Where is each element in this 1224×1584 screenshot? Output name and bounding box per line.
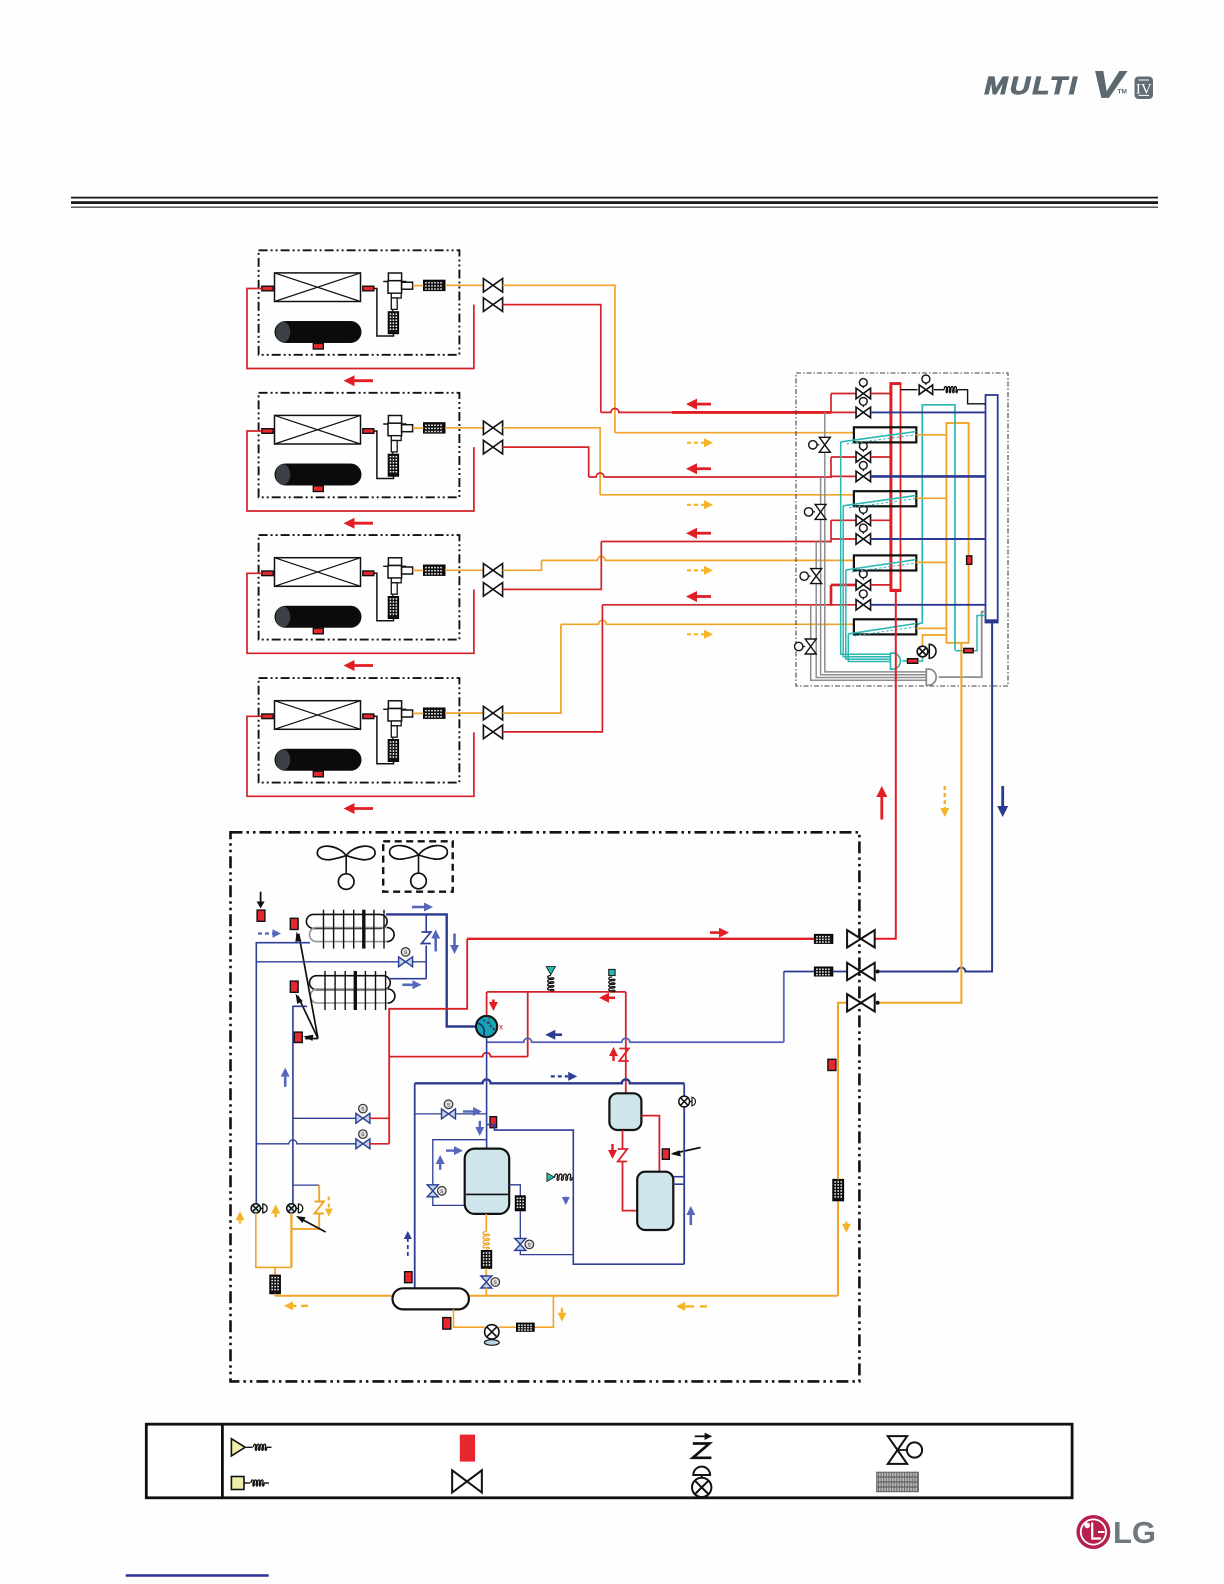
sensor under cylinder IDU3 [313, 628, 323, 634]
teal line subcooler 3 to gas-liquid separator [846, 570, 891, 659]
red gas pipe IDU1 to HR [503, 305, 601, 413]
sensor on liquid riser [828, 1059, 836, 1070]
outdoor EEV 2 [287, 1204, 296, 1213]
solenoid valve defrost [399, 957, 406, 967]
red discharge piping [389, 939, 467, 1144]
fan coil (black cylinder) IDU2 [275, 464, 361, 485]
HR EEV line branch 3 (gray) [816, 542, 926, 678]
oil separator [609, 1093, 641, 1130]
suction main line [415, 1079, 685, 1083]
red flow arrow on gas pipe 1 [697, 403, 711, 406]
ODU box [231, 832, 860, 1381]
orange dashed down arrow EEV bypass [328, 1197, 330, 1209]
red gas pipe IDU4 to HR [503, 605, 603, 732]
shutoff valve IDU1 gas (red) [483, 298, 493, 312]
wire HX right to EEV strainer IDU2 [374, 431, 394, 479]
EEV (electronic expansion valve) IDU2 [388, 416, 401, 424]
low pressure gas line to 4-way [487, 1038, 784, 1042]
shutoff valve IDU3 liquid (orange) [445, 569, 483, 571]
svg-text:x: x [499, 1023, 503, 1032]
orange liquid riser to service valve [837, 1201, 839, 1296]
red arrow to service valve [710, 931, 719, 934]
indoor unit 1 box [259, 250, 460, 354]
orange up arrows at EEVs [239, 1220, 242, 1223]
receiver bottom oil loop [454, 1309, 485, 1327]
hot gas bypass capillary coil [944, 387, 957, 393]
outdoor EEV 1 [251, 1204, 260, 1213]
blue down arrow (low pressure gas) [1001, 786, 1004, 806]
red flow arrow on gas pipe 4 [697, 595, 711, 598]
svg-text:s: s [447, 1102, 450, 1108]
orange dashed flow arrow on liquid pipe 3 [687, 569, 704, 571]
oil separator bottom with Z capillary [622, 1130, 624, 1149]
blue up arrow defrost [434, 939, 437, 952]
legend: valve [452, 1470, 467, 1492]
legend: temp sensor [460, 1435, 475, 1462]
blue down arrow hot gas riser [453, 934, 456, 946]
annotation arrow sensor [673, 1148, 701, 1154]
indoor unit 4 box [259, 678, 460, 783]
EEV (electronic expansion valve) IDU4 [388, 701, 401, 709]
MULTI V logo [982, 64, 1129, 106]
shutoff valve IDU4 gas (red) [483, 725, 493, 739]
pressure sensor 2 [609, 977, 615, 992]
navy line branch 4 to blue header [871, 604, 986, 606]
navy pipe coil1 outlet [386, 914, 476, 1026]
svg-text:LG: LG [1113, 1515, 1156, 1550]
indoor unit 2 box [259, 393, 460, 498]
outdoor fan 1 [317, 846, 346, 860]
defrost line with Z restrictor [425, 914, 427, 931]
sensor on red drop [662, 1149, 669, 1159]
orange below EEVs [256, 1213, 292, 1267]
orange dashed flow arrow on liquid pipe 4 [687, 633, 704, 635]
pipe temp sensor IDU1 left [262, 286, 273, 291]
svg-text:s: s [361, 1107, 364, 1113]
receiver (capsule) [393, 1288, 469, 1309]
HP gas service valve [847, 930, 861, 947]
EEV on suction return [679, 1096, 690, 1107]
HR main EEV (circle-X) [917, 646, 928, 657]
indoor unit 3 box [259, 535, 460, 640]
outdoor coil 1 [306, 914, 387, 928]
HR branch 1 riser [830, 394, 832, 414]
orange left arrows liquid main [293, 1305, 296, 1307]
subcooler HX 3 [854, 555, 916, 570]
shutoff valve IDU1 liquid (orange) [445, 284, 483, 286]
4-way valve [476, 1016, 497, 1037]
annotation arrow EEV [299, 1218, 326, 1233]
coil 2 sensor [290, 981, 298, 992]
navy line right of vessels [683, 1083, 685, 1096]
red up arrow + Z discharge [612, 1056, 614, 1061]
coil sensor annotation arrows [299, 934, 318, 1039]
blue low-pressure header [986, 395, 998, 623]
red gas pipe IDU3 to HR [503, 542, 602, 590]
HR expansion valve branch 3 [811, 569, 822, 577]
orange wire EEV to strainer IDU3 [413, 569, 424, 571]
sensor left suction [405, 1272, 412, 1283]
teal line subcooler 2 to gas-liquid separator [843, 506, 890, 657]
subcooler 1 outlet to liquid header [916, 434, 946, 436]
red gas pipe loop under IDU4 [247, 716, 474, 796]
orange liquid pipe IDU2 to HR [503, 428, 600, 495]
orange wire EEV to strainer IDU4 [413, 712, 424, 714]
EEV (electronic expansion valve) IDU3 [388, 558, 401, 566]
subcooler 2 teal circuit diagonal [843, 495, 916, 505]
blue down arrow accumulator inlet [479, 1121, 481, 1127]
subcooler 4 teal circuit diagonal [848, 624, 916, 634]
subcooler 3 outlet to liquid header [916, 561, 946, 563]
sensor on orange header [967, 556, 972, 564]
HR solenoid valve branch 2 low-pressure [856, 471, 863, 482]
blue up arrow vessel return [689, 1215, 692, 1225]
bottom left blue line [126, 1574, 269, 1576]
sensor under cylinder IDU1 [313, 343, 323, 349]
LG logo mark [1076, 1515, 1110, 1549]
HR solenoid valve branch 1 high-pressure [856, 388, 863, 399]
strainer below EEV IDU3 [388, 597, 398, 619]
svg-text:s: s [404, 950, 407, 956]
stem to red header branch 4 [871, 584, 891, 586]
strainer below EEV IDU1 [388, 312, 398, 334]
strainer below EEV IDU2 [388, 454, 398, 476]
LP gas service valve [847, 963, 861, 980]
HR branch 3 riser [830, 520, 832, 542]
subcool vessel [637, 1172, 673, 1230]
strainer liquid line IDU1 [424, 280, 446, 290]
svg-text:s: s [494, 1280, 497, 1286]
HR solenoid valve branch 1 low-pressure [856, 407, 863, 418]
accumulator bypass [433, 1140, 487, 1185]
navy line branch 1 to blue header [871, 411, 986, 413]
blue up arrow coil2 line [284, 1077, 287, 1087]
blue down arrow return path [565, 1196, 567, 1199]
coil 1 sensor [290, 918, 298, 929]
stem to red header branch 3 [871, 519, 891, 521]
teal manifold outlet to EEV [918, 657, 923, 661]
orange pipe HR to ODU [877, 643, 961, 1003]
fan coil (black cylinder) IDU1 [275, 322, 361, 343]
HR unit box [796, 373, 1008, 686]
hot gas bypass solenoid valve [919, 385, 926, 395]
HR solenoid valve branch 3 high-pressure [856, 515, 863, 526]
svg-text:s: s [361, 1132, 364, 1138]
gray manifold outlet to blue header [939, 612, 986, 677]
legend: service valve symbol [888, 1436, 907, 1450]
coil1 bottom connection [256, 943, 310, 1204]
outdoor fan 2 (optional, dashed box) [383, 841, 453, 891]
dashed suction arrow [551, 1075, 568, 1077]
coil2 bottom connection [293, 1006, 307, 1203]
heat exchanger IDU1 [275, 273, 361, 302]
svg-text:s: s [528, 1243, 531, 1249]
liquid main line [275, 1295, 392, 1297]
defrost sensor [294, 1032, 302, 1042]
orange dashed flow arrow on liquid pipe 1 [687, 442, 704, 444]
red gas pipe loop under IDU2 [247, 431, 474, 511]
teal manifold (half-moon) [891, 653, 901, 669]
bottom navy return path [487, 1125, 685, 1265]
LP gas line [784, 971, 815, 973]
strainer below EEV IDU4 [388, 740, 398, 762]
sensor on teal manifold outlet [902, 660, 907, 662]
subcooler 1 teal circuit diagonal [841, 432, 917, 442]
check line with solenoid [256, 961, 398, 963]
strainer HP gas [814, 934, 832, 943]
heat exchanger IDU2 [275, 415, 361, 444]
blue pipe HR to ODU [877, 623, 992, 972]
red flow arrow under IDU1 [355, 379, 374, 382]
legend box [146, 1424, 1072, 1498]
blue dashed arrow at coil 1 [258, 932, 273, 934]
subcooler 4 outlet to liquid header [916, 627, 946, 629]
hot gas bypass 1 [293, 1117, 356, 1119]
shutoff valve IDU4 liquid (orange) [445, 712, 483, 714]
dashed blue up arrow [407, 1239, 409, 1256]
HR solenoid valve branch 4 high-pressure [856, 580, 863, 591]
strainer liquid line IDU3 [424, 565, 446, 575]
bypass solenoid line [415, 1113, 442, 1115]
HR expansion valve branch 1 [819, 437, 830, 445]
HR EEV line branch 4 (gray) [811, 605, 927, 681]
accumulator right oil return [509, 1185, 520, 1196]
shutoff valve IDU2 liquid (orange) [445, 427, 483, 429]
HR EEV line branch 2 (gray) [821, 477, 927, 675]
oil separator to subcool vessel (red) [641, 1116, 659, 1172]
relief capillary on return [555, 1174, 572, 1180]
pipe temp sensor IDU2 right [363, 429, 374, 434]
red flow arrow under IDU2 [355, 522, 374, 525]
teal line subcooler 1 to gas-liquid separator [841, 442, 891, 654]
pipe temp sensor IDU1 right [363, 286, 374, 291]
navy line branch 2 to blue header [871, 475, 986, 478]
navy line branch 3 to blue header [871, 538, 986, 540]
stem to red header branch 1 [871, 393, 891, 395]
svg-text:s: s [440, 1189, 443, 1195]
orange down arrow liquid riser [845, 1222, 847, 1224]
HR solenoid valve branch 2 high-pressure [856, 452, 863, 463]
red left arrow discharge [609, 996, 615, 999]
oil return device [485, 1325, 499, 1339]
svg-text:TM: TM [1118, 89, 1127, 96]
red gas pipe loop under IDU3 [247, 573, 474, 653]
blue arrow coil1 outlet [412, 906, 424, 909]
blue arrow coil2 outlet [402, 983, 412, 986]
HR branch 4 riser [830, 585, 833, 606]
sensor on accumulator inlet [490, 1117, 497, 1128]
separator rules [71, 197, 1158, 199]
hot gas bypass black line [901, 389, 918, 391]
gray manifold (half-moon) [926, 669, 936, 685]
orange dashed down arrow (liquid) [944, 786, 946, 808]
legend: strainer symbol [877, 1472, 919, 1492]
orange liquid pipe IDU4 to HR [503, 624, 561, 713]
red flow arrow on gas pipe 3 [697, 532, 711, 535]
strainer LP gas [814, 967, 832, 976]
wire HX right to EEV strainer IDU1 [374, 289, 394, 337]
pipe temp sensor IDU3 right [363, 571, 374, 576]
legend: pressure sensor symbol [231, 1477, 244, 1490]
orange liquid pipe IDU1 to HR [503, 285, 615, 432]
outdoor air sensor arrow [260, 892, 262, 902]
pipe temp sensor IDU2 left [262, 429, 273, 434]
svg-text:MULTI: MULTI [982, 72, 1083, 100]
sensor on oil loop [443, 1318, 451, 1330]
pipe temp sensor IDU4 left [262, 714, 273, 719]
subcooler 3 teal circuit diagonal [846, 560, 917, 570]
shutoff valve IDU2 gas (red) [483, 440, 493, 454]
red high-pressure header [891, 383, 901, 591]
pipe temp sensor IDU4 right [363, 714, 374, 719]
pipe temp sensor IDU3 left [262, 571, 273, 576]
HR solenoid valve branch 3 low-pressure [856, 534, 863, 545]
sensor under cylinder IDU2 [313, 486, 323, 492]
liquid service valve [847, 994, 861, 1011]
IV badge [1135, 77, 1153, 99]
red flow arrow under IDU4 [355, 807, 374, 810]
outdoor air temp sensor [257, 910, 265, 921]
legend: EEV symbol [693, 1467, 710, 1475]
legend: relief valve symbol [231, 1439, 245, 1456]
HR EEV line branch 1 (gray) [825, 412, 927, 672]
orange liquid pipe IDU3 to HR [503, 560, 542, 570]
EEV (electronic expansion valve) IDU1 [388, 273, 401, 281]
red gas pipe IDU2 to HR [503, 447, 589, 477]
subcooler 2 outlet to liquid header [916, 497, 946, 499]
teal line subcooler 4 to gas-liquid separator [848, 634, 890, 662]
orange wire EEV to strainer IDU1 [413, 285, 424, 287]
red up arrow (high pressure gas) [880, 797, 883, 820]
red down arrow + Z [611, 1144, 613, 1150]
wire HX right to EEV strainer IDU3 [374, 573, 394, 621]
strainer liquid line IDU2 [424, 423, 446, 433]
accumulator outlet (oil) [485, 1214, 487, 1232]
relief valve 1 [550, 989, 552, 992]
red pipe HR to ODU [875, 591, 896, 939]
subcooler HX 1 [854, 427, 916, 442]
heat exchanger IDU4 [275, 701, 361, 730]
red gas pipe loop under IDU1 [247, 289, 474, 369]
navy left arrow LP line [555, 1033, 562, 1036]
HR expansion valve branch 4 [805, 639, 816, 647]
EEV bypass Z line [293, 1184, 319, 1186]
red flow arrow under IDU3 [355, 664, 374, 667]
sensor on teal bottom line [964, 648, 973, 652]
shutoff valve IDU3 gas (red) [483, 583, 493, 597]
wire HX right to EEV strainer IDU4 [374, 716, 394, 764]
red line to HP service valve [467, 938, 814, 940]
hot gas bypass 2 [256, 1140, 356, 1144]
legend: Z capillary [695, 1435, 708, 1437]
orange down arrow oil loop [561, 1308, 563, 1313]
HR main EEV orange feed [923, 635, 947, 646]
left suction drop to receiver [414, 1083, 416, 1288]
outdoor coil 2 [310, 976, 391, 990]
red down arrow into 4-way [492, 1000, 495, 1003]
orange dashed flow arrow on liquid pipe 2 [687, 504, 704, 506]
HR branch 2 riser [830, 457, 832, 478]
accumulator [465, 1149, 510, 1214]
4-way to accumulator vertical [486, 1037, 488, 1149]
sensor under cylinder IDU4 [313, 771, 323, 777]
teal subcool header [917, 405, 955, 651]
fan coil (black cylinder) IDU3 [275, 606, 361, 627]
orange wire EEV to strainer IDU2 [413, 427, 424, 429]
coil2 outlet [389, 978, 426, 980]
subcooler HX 2 [854, 491, 916, 506]
HR expansion valve branch 2 [815, 504, 826, 512]
teal bottom line to blue header [955, 616, 985, 651]
red flow arrow on gas pipe 2 [697, 467, 711, 470]
heat exchanger IDU3 [275, 558, 361, 587]
stem to red header branch 2 [871, 456, 891, 458]
fan coil (black cylinder) IDU4 [275, 749, 361, 770]
subcooler HX 4 [854, 619, 916, 634]
strainer liquid line IDU4 [424, 708, 446, 718]
orange liquid header [946, 423, 968, 643]
HR solenoid valve branch 4 low-pressure [856, 600, 863, 611]
